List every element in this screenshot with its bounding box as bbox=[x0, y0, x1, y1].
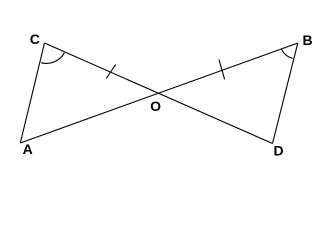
wire: segment C to A bbox=[20, 43, 44, 143]
svg-text:A: A bbox=[23, 141, 33, 157]
tick mark on segment CO bbox=[106, 64, 115, 78]
wire: segment A to B through O bbox=[20, 43, 298, 143]
angle arc at B bbox=[282, 50, 293, 59]
angle arc at C bbox=[41, 53, 64, 64]
wire: segment B to D bbox=[273, 43, 298, 144]
svg-text:B: B bbox=[302, 32, 312, 48]
wire: segment C to D through O bbox=[45, 43, 273, 144]
svg-text:C: C bbox=[30, 31, 40, 47]
svg-text:O: O bbox=[150, 98, 161, 114]
svg-text:D: D bbox=[273, 143, 283, 159]
tick mark on segment OB bbox=[219, 60, 225, 80]
